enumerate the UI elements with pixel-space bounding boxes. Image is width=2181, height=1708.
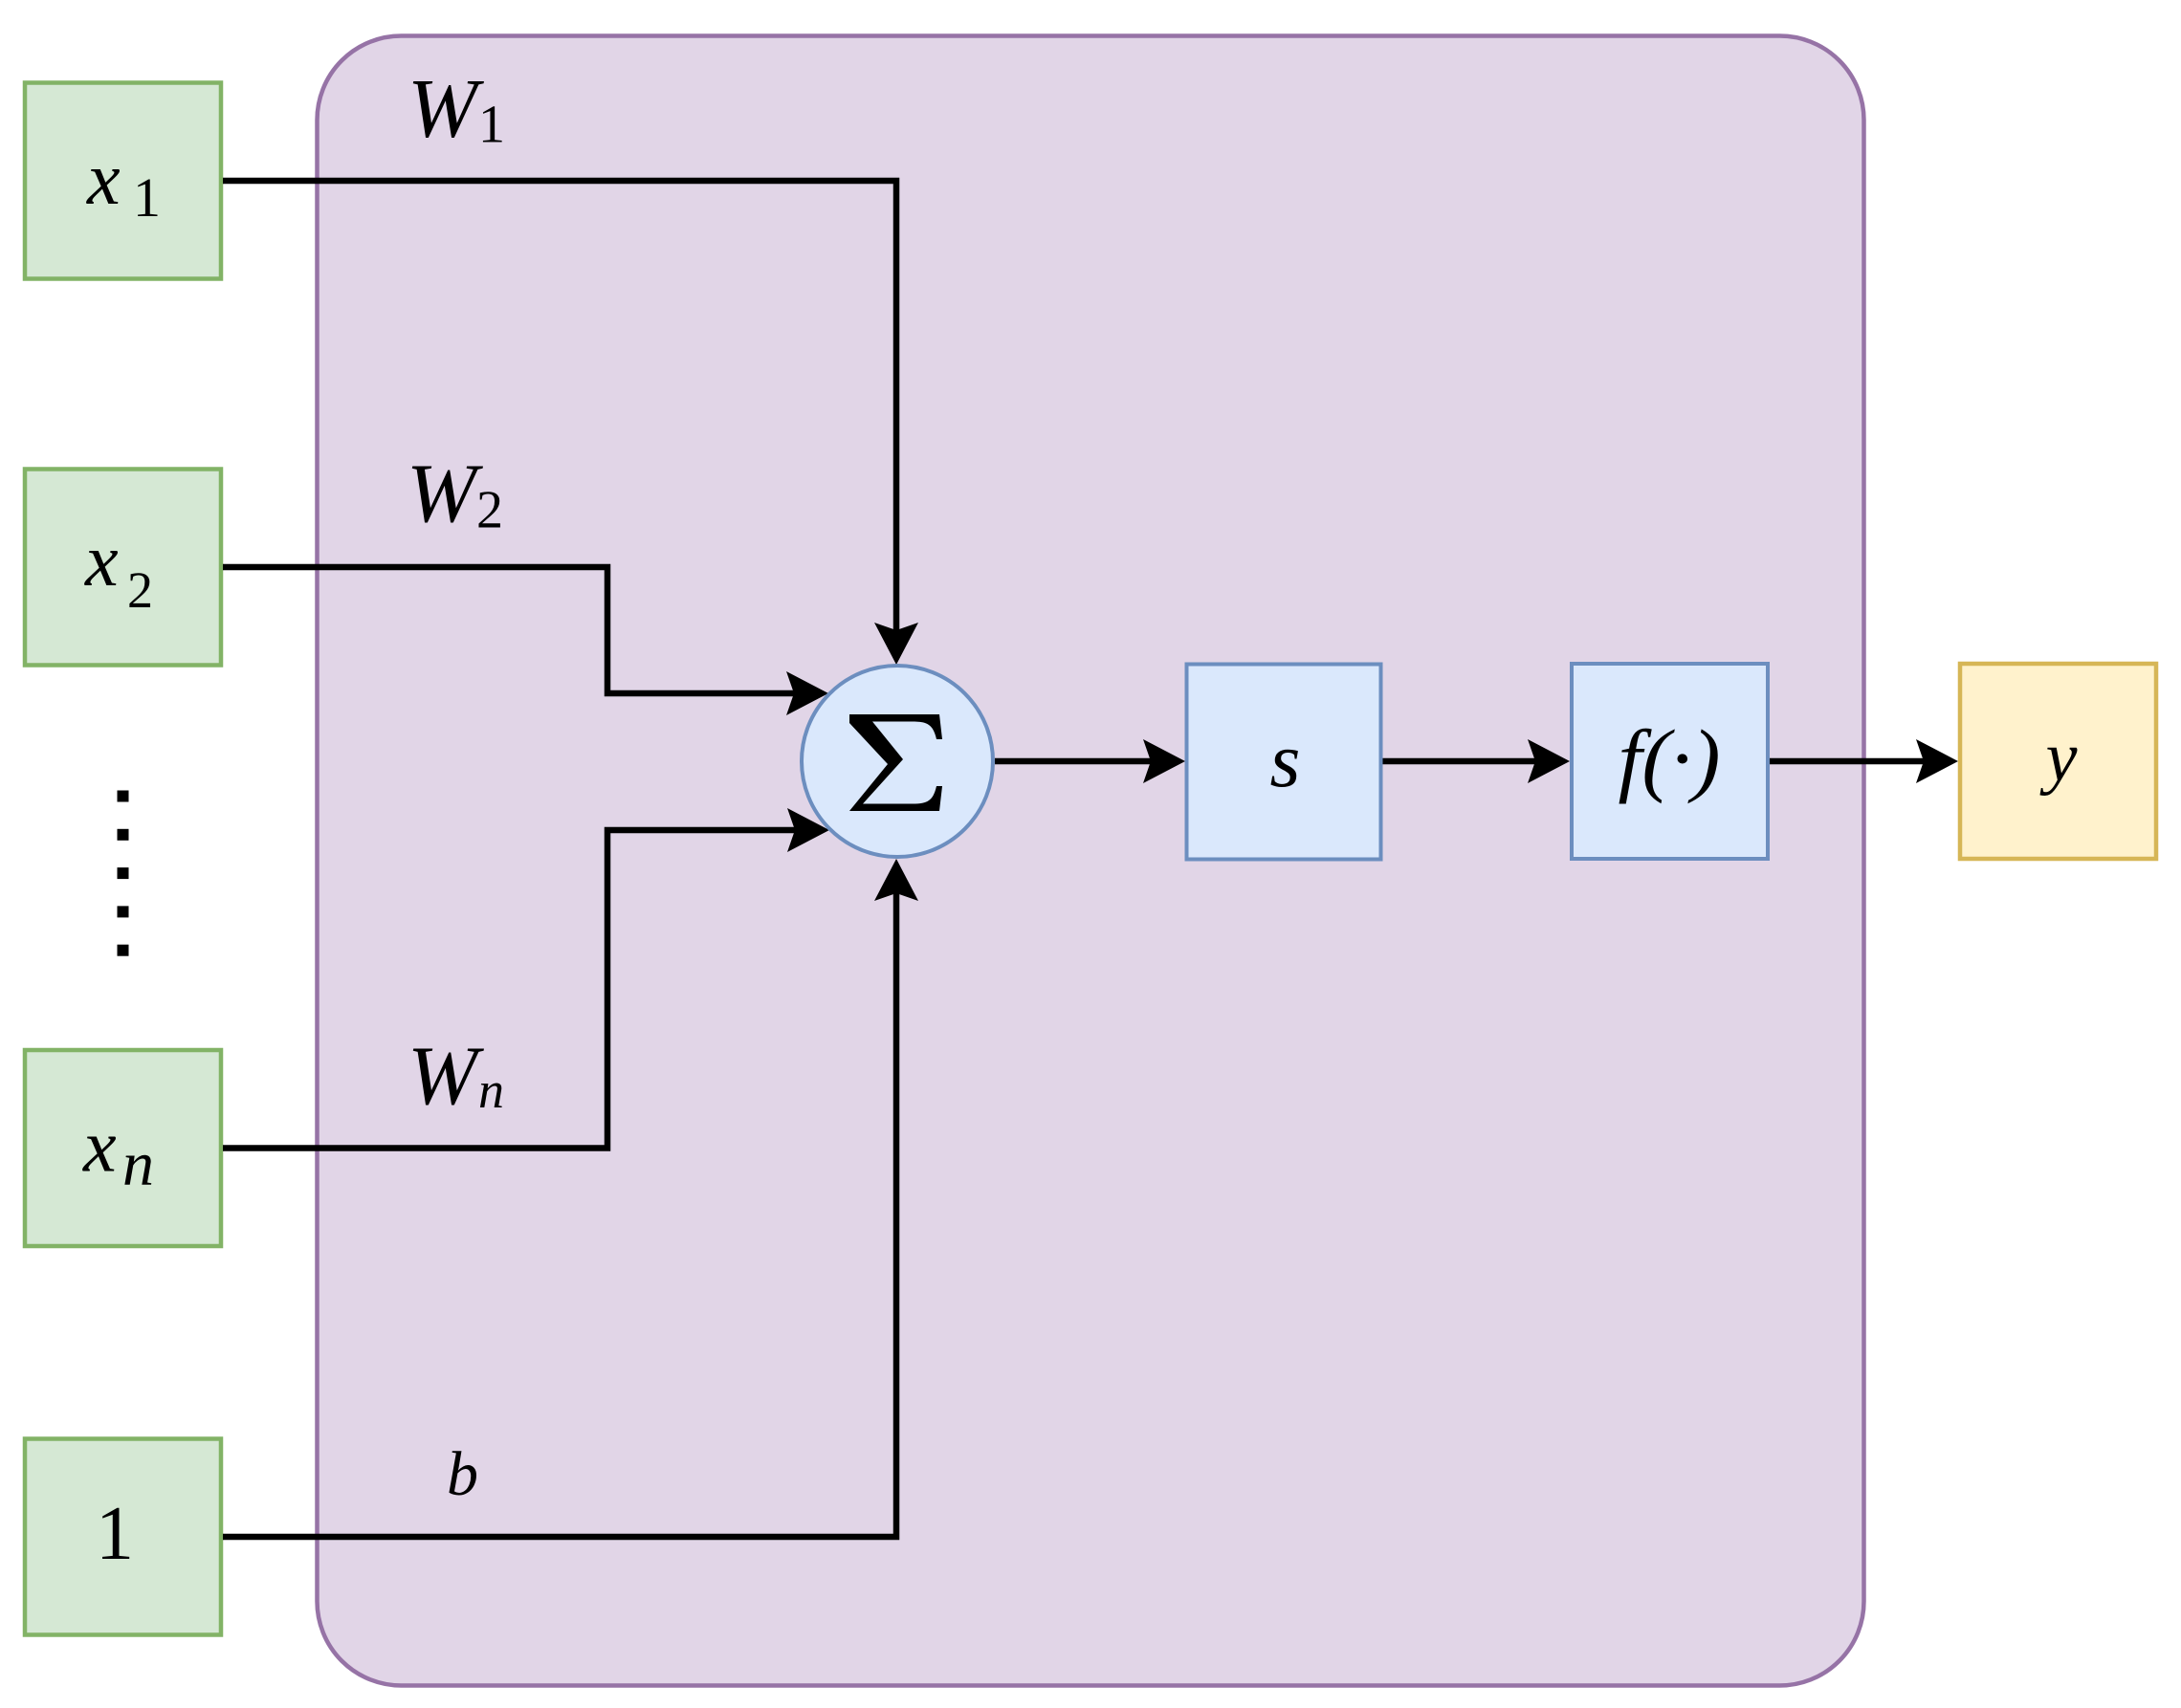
block s — [1187, 665, 1381, 860]
input box 1 (bias) — [25, 1439, 221, 1635]
wire x2 to sum — [223, 567, 794, 693]
wire f to y — [1770, 758, 1924, 765]
bias label b — [447, 1439, 478, 1509]
wire xn to sum — [223, 830, 795, 1149]
output box y — [1960, 664, 2156, 859]
svg-text:2: 2 — [476, 481, 503, 540]
label 1 — [96, 1492, 134, 1576]
wire x1 to sum — [223, 181, 896, 630]
svg-text:1: 1 — [133, 166, 161, 229]
svg-text:n: n — [478, 1062, 504, 1119]
wire bias to sum — [223, 893, 896, 1537]
input box xn — [25, 1050, 221, 1246]
svg-text:W: W — [407, 448, 483, 540]
arrowhead into sum bottom — [874, 859, 918, 901]
sigma symbol — [849, 714, 942, 811]
arrowhead into sum lower-left — [787, 808, 829, 852]
svg-text:x: x — [82, 1105, 117, 1188]
wire sum to s — [995, 758, 1151, 765]
svg-text:n: n — [122, 1129, 154, 1199]
label x1 — [86, 137, 161, 229]
svg-text:x: x — [84, 518, 119, 602]
weight label W2 — [407, 448, 503, 540]
summation node — [802, 666, 993, 857]
weight label Wn — [408, 1030, 504, 1123]
arrowhead into sum top — [874, 623, 918, 665]
neuron body (purple container) — [318, 36, 1864, 1686]
input box x1 — [25, 83, 221, 279]
wire s to f — [1383, 758, 1536, 765]
svg-text:x: x — [86, 137, 121, 220]
arrowhead into sum upper-left — [786, 671, 828, 715]
vertical ellipsis dots — [118, 791, 129, 956]
svg-text:2: 2 — [127, 561, 153, 619]
arrowhead into f — [1528, 739, 1570, 783]
svg-text:W: W — [408, 63, 484, 156]
svg-text:1: 1 — [478, 96, 505, 155]
svg-text:W: W — [408, 1030, 484, 1123]
input box x2 — [25, 470, 221, 666]
arrowhead into y — [1916, 739, 1958, 783]
svg-text:f(·): f(·) — [1619, 712, 1721, 804]
block f (activation) — [1572, 664, 1768, 859]
svg-text:1: 1 — [96, 1492, 134, 1576]
label x2 — [84, 518, 153, 619]
svg-text:s: s — [1270, 716, 1301, 803]
arrowhead into s — [1143, 739, 1185, 783]
svg-text:b: b — [447, 1439, 478, 1509]
weight label W1 — [408, 63, 505, 156]
label xn — [82, 1105, 154, 1200]
